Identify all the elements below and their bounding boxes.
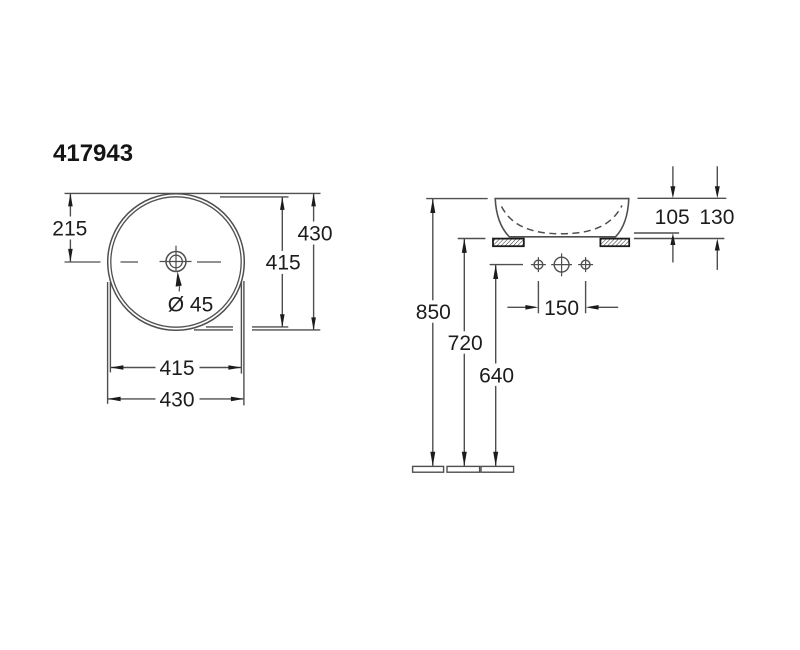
basin outer rim circle (top view) xyxy=(108,194,245,331)
inner-circle top extension line (415 top) xyxy=(220,196,289,198)
right outer extension line (430 width) xyxy=(243,281,245,405)
svg-text:415: 415 xyxy=(266,252,301,275)
svg-text:850: 850 xyxy=(416,301,451,324)
floor tile 2 xyxy=(447,466,480,472)
floor tile 1 xyxy=(413,466,444,472)
dimension 850 bottom arrow xyxy=(430,452,435,466)
dimension 430 horizontal line xyxy=(108,398,156,400)
basin inner rim circle xyxy=(111,197,241,327)
dimension 720 top arrow xyxy=(462,239,467,253)
dimension 415 vertical bottom arrow xyxy=(280,314,285,327)
dimension 430 horizontal left arrow xyxy=(108,397,121,402)
left inner extension line (415 width) xyxy=(109,282,111,372)
svg-text:130: 130 xyxy=(699,206,734,229)
rim top right extension line xyxy=(638,197,727,199)
drain leader arrow xyxy=(176,272,182,287)
svg-text:417943: 417943 xyxy=(53,140,133,167)
dimension 720 line xyxy=(463,239,465,332)
svg-text:150: 150 xyxy=(544,297,579,320)
drain inner circle xyxy=(170,255,183,268)
dimension 430 vertical top arrow xyxy=(311,193,316,206)
dimension 215 line xyxy=(69,193,71,216)
drain crosshair vertical xyxy=(175,246,177,272)
dimension 150 right extension line xyxy=(585,281,587,313)
outer-circle bottom extension line (430 bottom) xyxy=(194,329,233,331)
svg-text:Ø 45: Ø 45 xyxy=(168,293,214,316)
dimension 105 lower arrow xyxy=(672,244,674,263)
rim top left extension line xyxy=(426,198,488,200)
counter hatch left xyxy=(493,239,524,247)
inner-circle bottom extension line (415 bottom) xyxy=(206,326,233,328)
right inner extension line (415 width) xyxy=(240,281,242,374)
dimension 430 vertical line xyxy=(313,193,315,221)
dimension 720 bottom arrow xyxy=(462,452,467,466)
floor tile 3 xyxy=(481,466,514,472)
svg-text:415: 415 xyxy=(159,357,194,380)
svg-text:720: 720 xyxy=(448,332,483,355)
inner bowl dashed curve xyxy=(502,206,623,234)
dimension 640 line xyxy=(495,265,497,364)
horizontal centerline of circle xyxy=(65,261,222,263)
counter top left extension line xyxy=(458,238,486,240)
faucet hole center large xyxy=(554,257,569,272)
dimension 415 horizontal line xyxy=(110,367,155,369)
svg-text:215: 215 xyxy=(52,218,87,241)
dimension 415 vertical top arrow xyxy=(280,197,285,210)
basin bottom right extension (130) xyxy=(634,238,724,240)
svg-text:430: 430 xyxy=(159,389,194,412)
dimension 215 bottom arrow xyxy=(68,249,73,262)
svg-text:105: 105 xyxy=(655,206,690,229)
dimension 850 top arrow xyxy=(430,199,435,213)
dimension 105 upper arrow xyxy=(672,166,674,187)
faucet hole small right xyxy=(581,260,590,269)
dimension 215 top arrow xyxy=(68,193,73,206)
svg-text:640: 640 xyxy=(479,364,514,387)
faucet hole small left xyxy=(534,260,543,269)
dimension 640 top arrow xyxy=(493,265,498,279)
top tangent extension line (430 top) xyxy=(65,192,321,194)
dimension 640 bottom arrow xyxy=(493,452,498,466)
dimension 130 lower arrow xyxy=(716,250,718,270)
svg-text:430: 430 xyxy=(297,223,332,246)
dimension 415 horizontal right arrow xyxy=(228,365,241,370)
faucet centerline left extension xyxy=(490,264,523,266)
dimension 430 vertical bottom arrow xyxy=(311,317,316,330)
dimension 150 left extension line xyxy=(537,281,539,313)
counter hatch right xyxy=(600,239,629,247)
basin side profile (front view) xyxy=(495,199,629,237)
dimension 150 left arrow xyxy=(507,306,526,308)
dimension 150 right arrow xyxy=(598,306,619,308)
drain outer circle xyxy=(166,252,186,272)
dimension 430 horizontal right arrow xyxy=(231,397,244,402)
dimension 850 line xyxy=(432,199,434,301)
dimension 130 upper arrow xyxy=(716,166,718,187)
left outer extension line (430 width) xyxy=(107,282,109,404)
dimension 415 vertical line xyxy=(281,197,283,251)
dimension 415 horizontal left arrow xyxy=(110,365,123,370)
drain crosshair horizontal xyxy=(160,261,192,263)
bowl depth bottom extension (105) xyxy=(634,232,679,234)
